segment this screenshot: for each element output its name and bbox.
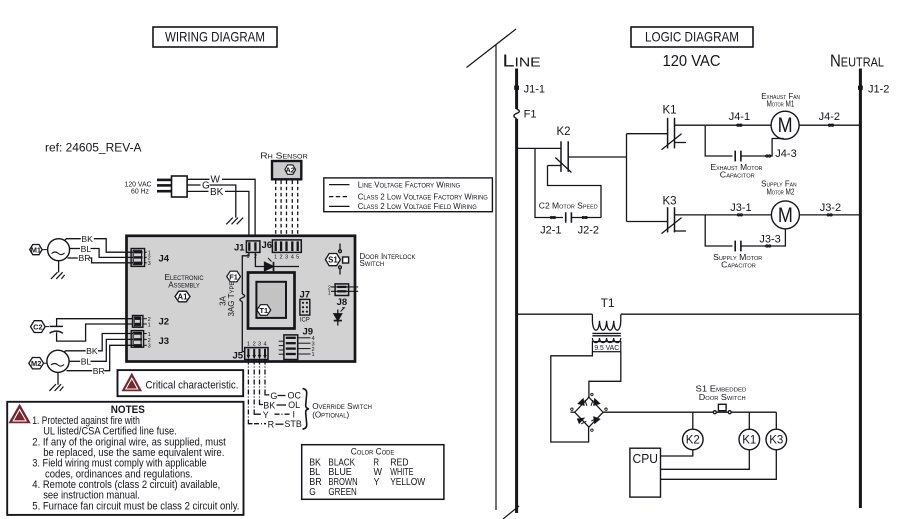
svg-text:1: 1: [247, 342, 250, 348]
svg-text:4: 4: [263, 342, 266, 348]
override brace: [303, 389, 310, 430]
svg-text:G: G: [270, 391, 277, 401]
svg-text:M: M: [778, 204, 793, 227]
class2 dashed wires A2 to J6: [276, 181, 298, 241]
switch S1 hexagon: [325, 254, 340, 266]
relay coil K1: [739, 412, 760, 450]
svg-text:J6: J6: [262, 240, 273, 251]
svg-text:J8: J8: [337, 297, 348, 308]
svg-text:Y: Y: [263, 410, 269, 420]
exhaust motor capacitor: [705, 125, 797, 179]
transformer T1 block: [248, 273, 295, 329]
svg-text:K1: K1: [663, 105, 677, 117]
motor M1 circle: [48, 239, 70, 261]
svg-text:K2: K2: [557, 126, 571, 138]
hexagon A1: [175, 291, 190, 302]
diode CR2: [334, 308, 345, 326]
svg-text:3: 3: [285, 255, 288, 261]
RH sensor A2 box: [272, 161, 301, 179]
svg-text:F1: F1: [229, 272, 238, 281]
svg-text:J3-1: J3-1: [730, 202, 751, 214]
svg-text:WIRING DIAGRAM: WIRING DIAGRAM: [165, 29, 265, 45]
diode CR1: [265, 262, 274, 270]
bridge diode bottom-left: [578, 418, 584, 423]
fuse F1 wire and element: [242, 252, 249, 294]
svg-text:A2: A2: [285, 166, 294, 175]
M1 wire BR: [68, 257, 78, 259]
svg-text:J4-3: J4-3: [775, 148, 796, 160]
svg-text:2: 2: [280, 255, 283, 261]
svg-text:J1: J1: [234, 243, 245, 254]
fuse F1 on bus: [514, 109, 520, 119]
K1 contact: [627, 105, 706, 150]
svg-text:C2: C2: [33, 323, 42, 332]
S1 embedded door switch: [603, 384, 776, 413]
svg-text:3: 3: [148, 261, 151, 267]
svg-text:Capacitor: Capacitor: [721, 261, 756, 270]
svg-text:STB: STB: [284, 419, 302, 429]
svg-text:K3: K3: [663, 196, 677, 208]
line bus: [515, 69, 518, 514]
svg-text:F1: F1: [524, 109, 537, 121]
svg-text:J3-3: J3-3: [759, 234, 780, 246]
svg-text:LOGIC DIAGRAM: LOGIC DIAGRAM: [645, 29, 739, 45]
legend box: [324, 178, 493, 212]
relay coil K3: [766, 412, 787, 450]
svg-text:Assembly: Assembly: [168, 280, 200, 290]
svg-text:K1: K1: [742, 435, 756, 447]
svg-text:4: 4: [291, 255, 294, 261]
svg-text:Door Switch: Door Switch: [699, 393, 746, 402]
page boundary line: [495, 45, 497, 510]
svg-text:GREEN: GREEN: [328, 487, 356, 498]
svg-text:Class 2 Low Voltage Field Wiri: Class 2 Low Voltage Field Wiring: [358, 202, 477, 211]
svg-text:ICP: ICP: [300, 316, 310, 323]
svg-text:A1: A1: [178, 293, 189, 302]
svg-text:1: 1: [274, 255, 277, 261]
hexagon A2: [285, 165, 296, 174]
connector J3: [131, 331, 169, 350]
bridge pins: [591, 393, 593, 395]
secondary coil: [592, 338, 620, 343]
svg-text:S1: S1: [328, 256, 338, 265]
svg-text:BK: BK: [86, 346, 98, 356]
svg-text:Color Code: Color Code: [351, 446, 394, 456]
node J1-1: [514, 86, 519, 90]
ground M1: [58, 261, 60, 273]
svg-text:J5: J5: [233, 350, 244, 361]
M2 wire BR: [67, 370, 93, 372]
svg-text:BL: BL: [81, 357, 92, 367]
secondary wiring to bridge: [551, 352, 593, 442]
K3 contact: [627, 196, 706, 234]
motor M1 hexagon: [30, 245, 42, 255]
svg-text:T1: T1: [259, 306, 268, 315]
svg-text:Motor M1: Motor M1: [767, 100, 795, 109]
core: [592, 332, 620, 334]
svg-text:BR: BR: [79, 253, 91, 263]
relay coil K2: [683, 412, 704, 450]
bridge diode bottom-right: [594, 417, 599, 423]
svg-text:60 Hz: 60 Hz: [131, 187, 149, 196]
M1 wire BL: [70, 248, 80, 250]
svg-text:3: 3: [258, 342, 261, 348]
transformer T1: [518, 296, 861, 352]
svg-text:J3: J3: [159, 336, 170, 347]
connector J1: [234, 241, 260, 260]
svg-text:ref: 24605_REV-A: ref: 24605_REV-A: [45, 141, 142, 155]
connector J5: [233, 342, 269, 362]
svg-text:5: 5: [296, 255, 299, 261]
svg-text:Capacitor: Capacitor: [720, 171, 755, 180]
M1 wire BK: [65, 239, 81, 241]
svg-text:M1: M1: [31, 246, 41, 255]
svg-text:J2: J2: [159, 316, 170, 327]
J5 field wires to override switch: [248, 360, 290, 424]
bridge diode top-left: [579, 399, 584, 405]
9.5 VAC box: [592, 342, 620, 352]
electronic assembly board A1: [127, 236, 356, 362]
primary coil: [592, 314, 620, 330]
svg-text:1: 1: [328, 291, 331, 297]
svg-text:Rh Sensor: Rh Sensor: [260, 151, 308, 161]
svg-text:Switch: Switch: [360, 259, 385, 268]
svg-text:J4: J4: [159, 254, 170, 265]
capacitor C2 plates: [45, 326, 49, 328]
M2 wire BK: [64, 351, 86, 352]
svg-text:YELLOW: YELLOW: [390, 477, 425, 488]
svg-text:M: M: [778, 114, 793, 137]
connector J6: [262, 240, 302, 261]
wire CPU to K1: [661, 450, 750, 470]
connector J9: [279, 327, 315, 360]
ground M2: [57, 372, 59, 384]
exhaust fan motor M1: [705, 92, 860, 139]
svg-text:G: G: [202, 181, 210, 192]
C2 wires to J2: [57, 319, 133, 327]
fuse F1 hexagon: [227, 271, 241, 282]
svg-text:LINE: LINE: [503, 50, 541, 70]
LOGIC DIAGRAM title box: [631, 27, 753, 47]
connector J8: [328, 284, 359, 308]
hexagon T1: [257, 305, 271, 316]
critical characteristic box: [118, 370, 244, 396]
wire CPU to K3: [661, 450, 777, 480]
svg-text:Line Voltage Factory Wiring: Line Voltage Factory Wiring: [358, 180, 461, 189]
svg-text:2: 2: [253, 342, 256, 348]
supply motor capacitor: [705, 215, 785, 270]
svg-text:1: 1: [148, 323, 151, 329]
svg-text:G: G: [309, 487, 316, 498]
node J1-2: [858, 86, 863, 90]
page break slash bottom: [503, 506, 519, 519]
legend line voltage sample: [329, 184, 350, 186]
svg-text:C2 Motor Speed: C2 Motor Speed: [539, 201, 598, 210]
door interlock switch contacts: [339, 244, 349, 275]
svg-text:M2: M2: [31, 359, 41, 368]
svg-text:I: I: [293, 410, 296, 420]
neutral bus: [859, 69, 862, 509]
svg-text:BK: BK: [81, 234, 93, 244]
svg-text:T1: T1: [601, 296, 615, 310]
svg-text:(Optional): (Optional): [312, 411, 349, 420]
legend class2 factory sample: [329, 196, 350, 198]
svg-text:NEUTRAL: NEUTRAL: [830, 50, 884, 70]
svg-text:J3-2: J3-2: [820, 202, 841, 214]
svg-text:1: 1: [312, 352, 315, 358]
svg-text:120 VAC: 120 VAC: [663, 53, 721, 70]
CPU: [630, 448, 776, 497]
svg-text:S1 Embedded: S1 Embedded: [696, 384, 747, 393]
svg-text:Class 2 Low Voltage Factory Wi: Class 2 Low Voltage Factory Wiring: [358, 192, 488, 201]
supply fan motor M2: [705, 180, 860, 229]
C2 motor speed capacitor: [535, 148, 601, 236]
svg-text:W: W: [211, 175, 221, 186]
color code box: [302, 445, 444, 500]
svg-text:Motor M2: Motor M2: [767, 187, 795, 196]
svg-text:R: R: [268, 419, 275, 429]
svg-text:Y: Y: [374, 477, 380, 488]
wire G: [187, 184, 200, 186]
svg-text:J1-2: J1-2: [868, 83, 889, 95]
svg-text:J4-2: J4-2: [819, 111, 840, 123]
bridge rectifier: [571, 393, 608, 431]
connector J2: [133, 316, 170, 329]
svg-text:OC: OC: [288, 391, 302, 401]
svg-text:K2: K2: [686, 435, 700, 447]
legend class2 field sample: [329, 205, 350, 207]
K2 contact: [518, 126, 627, 218]
motor M2 circle: [47, 350, 69, 372]
svg-text:CPU: CPU: [633, 452, 659, 466]
svg-text:Critical characteristic.: Critical characteristic.: [146, 379, 239, 391]
WIRING DIAGRAM title box: [153, 27, 277, 47]
svg-text:K3: K3: [769, 435, 783, 447]
svg-text:5. Furnace fan circuit must be: 5. Furnace fan circuit must be class 2 c…: [32, 500, 239, 512]
svg-text:9.5 VAC: 9.5 VAC: [594, 343, 619, 352]
primary wire: [518, 313, 593, 315]
page break slash top: [467, 29, 517, 68]
notes box: [7, 402, 243, 515]
svg-text:J2-1: J2-1: [540, 225, 561, 237]
connector J4: [131, 249, 170, 268]
power plug P1 120VAC: [125, 176, 188, 197]
branch wire K1/K3: [626, 134, 628, 222]
svg-text:BK: BK: [210, 187, 224, 198]
M2 wire BL: [69, 360, 80, 362]
earth ground (G wire): [226, 218, 243, 225]
capacitor C2 hexagon: [31, 321, 46, 333]
wire BK: [187, 190, 208, 192]
wire W: [187, 178, 209, 180]
connector J7: [300, 289, 311, 323]
bridge diode top-right: [594, 399, 599, 405]
wire CPU to K2: [661, 450, 693, 456]
svg-text:3: 3: [148, 344, 151, 350]
svg-text:J4-1: J4-1: [729, 111, 750, 123]
svg-text:J2-2: J2-2: [578, 225, 599, 237]
wire J1-2 to diode: [255, 252, 264, 266]
motor M2 hexagon: [29, 358, 44, 369]
svg-text:BR: BR: [93, 366, 105, 376]
svg-text:3AG Type: 3AG Type: [227, 282, 236, 317]
svg-text:J1-1: J1-1: [524, 83, 545, 95]
